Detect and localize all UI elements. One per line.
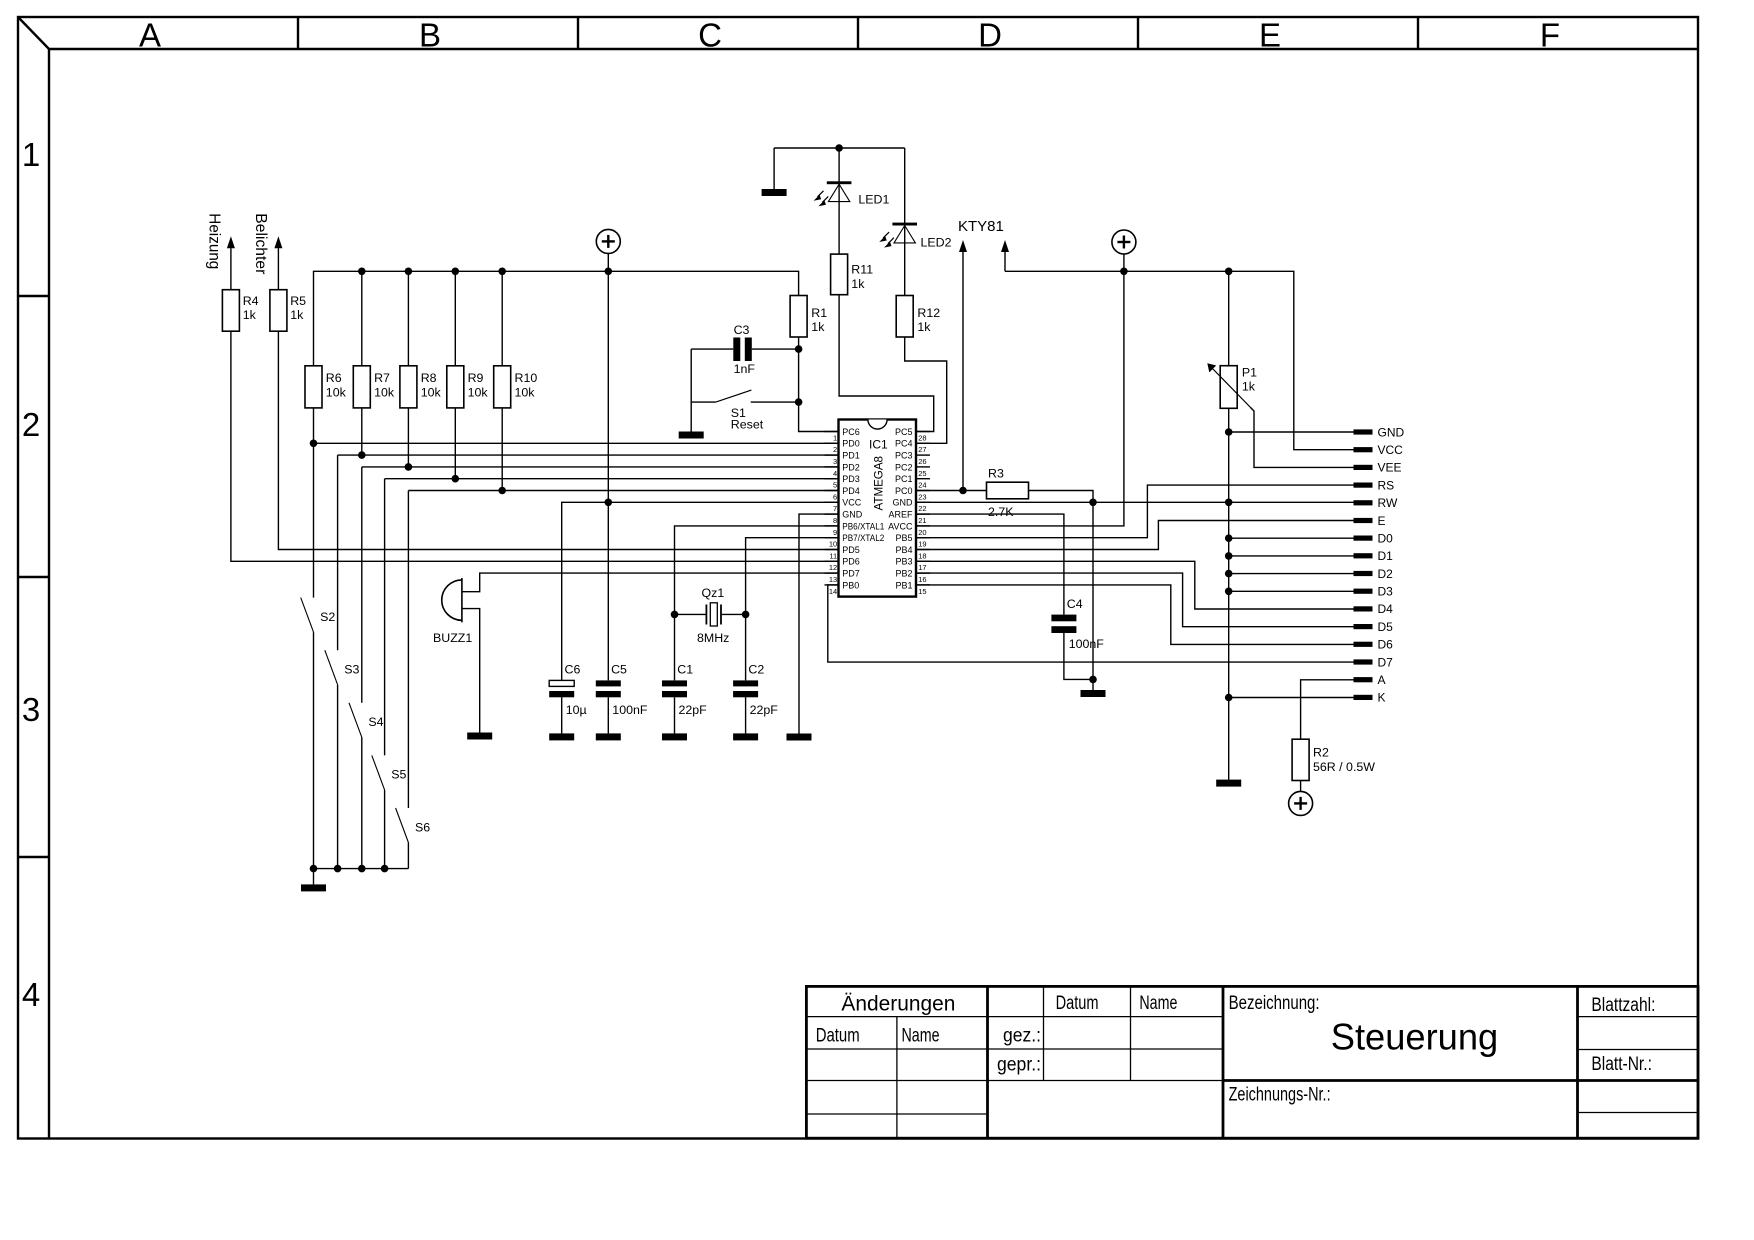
svg-text:22: 22 — [918, 504, 926, 513]
ground symbol below C4 — [1081, 690, 1106, 697]
wire XTAL1 net — [671, 526, 839, 681]
svg-text:8: 8 — [833, 516, 837, 525]
svg-text:R12: R12 — [917, 306, 940, 320]
svg-text:100nF: 100nF — [1069, 637, 1105, 651]
svg-text:gez.:: gez.: — [1003, 1025, 1041, 1046]
svg-text:R3: R3 — [988, 467, 1004, 481]
wire R9 to IC1 and S5 — [385, 408, 839, 756]
wire IC1 pin23 PC0 to R3 — [916, 487, 987, 495]
svg-text:22pF: 22pF — [750, 703, 779, 717]
svg-text:22pF: 22pF — [679, 703, 708, 717]
svg-text:1nF: 1nF — [734, 362, 756, 376]
svg-text:C1: C1 — [677, 663, 693, 677]
svg-text:R9: R9 — [468, 371, 484, 385]
wire S2 to ground bus — [313, 632, 315, 869]
svg-text:R10: R10 — [515, 371, 538, 385]
svg-text:20: 20 — [918, 528, 926, 537]
svg-text:F: F — [1540, 17, 1560, 54]
wire R11 to IC1 pin28 PC5 — [839, 295, 934, 432]
svg-text:B: B — [419, 17, 441, 54]
svg-text:PD3: PD3 — [842, 474, 860, 484]
capacitor C6 10u — [549, 663, 586, 718]
wire IC1 PB3 to LCD D4 — [916, 561, 1354, 609]
svg-text:26: 26 — [918, 457, 926, 466]
svg-text:LED1: LED1 — [858, 193, 889, 207]
svg-text:10k: 10k — [515, 386, 536, 400]
ground symbol at C2 — [733, 733, 758, 740]
svg-text:C4: C4 — [1067, 597, 1083, 611]
IC IC1 ATMEGA8 — [825, 420, 931, 597]
svg-text:E: E — [1378, 514, 1386, 528]
resistor R5 1k — [270, 290, 306, 332]
resistor R3 2.7K — [987, 467, 1029, 520]
svg-text:C5: C5 — [611, 663, 627, 677]
svg-text:Zeichnungs-Nr.:: Zeichnungs-Nr.: — [1229, 1085, 1331, 1106]
wire GND to LCD D3 — [1229, 590, 1354, 592]
svg-text:VCC: VCC — [842, 498, 862, 508]
svg-text:PD0: PD0 — [842, 439, 860, 449]
svg-text:2.7K: 2.7K — [988, 505, 1014, 519]
svg-text:Name: Name — [1139, 993, 1177, 1014]
ground symbol at IC1 GND — [787, 734, 812, 741]
svg-text:R5: R5 — [290, 294, 306, 308]
wire S5 to ground bus — [384, 790, 386, 869]
svg-text:1k: 1k — [811, 320, 825, 334]
svg-text:S2: S2 — [320, 610, 335, 624]
svg-text:E: E — [1259, 17, 1281, 54]
resistor R12 1k — [896, 296, 940, 338]
svg-text:S5: S5 — [391, 768, 406, 782]
svg-text:56R / 0.5W: 56R / 0.5W — [1313, 760, 1375, 774]
wire LED1 anode to R11 — [838, 202, 840, 255]
svg-text:28: 28 — [918, 433, 926, 442]
svg-text:4: 4 — [22, 976, 40, 1013]
svg-text:C2: C2 — [748, 663, 764, 677]
wire S3 to ground bus — [337, 685, 339, 869]
svg-text:Blatt-Nr.:: Blatt-Nr.: — [1591, 1054, 1652, 1075]
resistor R7 10k — [353, 366, 395, 408]
wire VCC rail to P1 — [1228, 271, 1230, 365]
capacitor C4 100nF — [1051, 597, 1104, 651]
svg-text:16: 16 — [918, 575, 926, 584]
svg-text:1k: 1k — [917, 320, 931, 334]
svg-text:2: 2 — [22, 406, 40, 443]
svg-text:27: 27 — [918, 445, 926, 454]
svg-text:10µ: 10µ — [566, 703, 587, 717]
capacitor C5 100nF — [596, 663, 648, 718]
svg-text:15: 15 — [918, 587, 926, 596]
svg-text:S4: S4 — [368, 715, 383, 729]
svg-text:11: 11 — [829, 551, 837, 560]
svg-text:PD6: PD6 — [842, 557, 860, 567]
resistor R9 10k — [447, 366, 489, 408]
svg-text:PC6: PC6 — [842, 427, 860, 437]
svg-text:D3: D3 — [1378, 585, 1394, 599]
svg-text:PC0: PC0 — [895, 486, 913, 496]
svg-text:RW: RW — [1378, 496, 1398, 510]
svg-text:10: 10 — [829, 540, 837, 549]
svg-text:K: K — [1378, 691, 1386, 705]
svg-text:R6: R6 — [326, 371, 342, 385]
svg-text:VEE: VEE — [1378, 461, 1402, 475]
svg-text:PB5: PB5 — [895, 533, 912, 543]
wire P1 lower leg GND bus — [1225, 408, 1233, 779]
svg-text:10k: 10k — [468, 386, 489, 400]
svg-text:D2: D2 — [1378, 567, 1394, 581]
svg-text:D4: D4 — [1378, 602, 1394, 616]
svg-text:Bezeichnung:: Bezeichnung: — [1229, 993, 1320, 1014]
svg-text:R1: R1 — [811, 306, 827, 320]
svg-text:D0: D0 — [1378, 531, 1394, 545]
svg-text:Belichter: Belichter — [252, 213, 269, 274]
wire S6 to ground bus — [407, 843, 409, 869]
svg-text:Blattzahl:: Blattzahl: — [1591, 995, 1655, 1016]
svg-text:1k: 1k — [290, 308, 304, 322]
svg-text:8MHz: 8MHz — [697, 631, 729, 645]
svg-text:S6: S6 — [415, 820, 430, 834]
ground symbol at C5 — [596, 733, 621, 740]
wire AREF to C4 — [916, 514, 1064, 615]
wire GND to LCD K — [1229, 697, 1354, 699]
svg-text:3: 3 — [833, 457, 837, 466]
wire LCD A to R2 — [1301, 680, 1354, 739]
wire R4 to IC1 pin12 PD6 — [231, 331, 839, 561]
ground symbol at switch bus — [301, 884, 326, 891]
wire C4 to GND — [1064, 633, 1093, 679]
svg-text:PC5: PC5 — [895, 427, 913, 437]
svg-text:A: A — [139, 17, 161, 54]
crystal Qz1 8MHz — [697, 586, 729, 645]
svg-text:21: 21 — [918, 516, 926, 525]
switch S1 Reset — [691, 390, 798, 431]
wire C5 to ground — [607, 697, 609, 733]
node KTY81 sensor terminals — [958, 218, 1009, 491]
resistor R1 1k — [790, 296, 827, 338]
wire GND net IC1 pin22 to LCD RW — [916, 499, 1354, 507]
svg-text:VCC: VCC — [1378, 443, 1404, 457]
svg-text:Reset: Reset — [731, 418, 764, 432]
ground symbol at C6 — [549, 733, 574, 740]
svg-text:PB3: PB3 — [895, 557, 912, 567]
svg-text:AREF: AREF — [888, 510, 913, 520]
svg-text:19: 19 — [918, 540, 926, 549]
svg-text:PB2: PB2 — [895, 569, 912, 579]
svg-text:1: 1 — [22, 136, 40, 173]
svg-text:GND: GND — [1378, 425, 1405, 439]
svg-text:PC2: PC2 — [895, 462, 913, 472]
wire LED rail to LED2 — [904, 148, 906, 243]
svg-text:gepr.:: gepr.: — [997, 1055, 1041, 1076]
wire GND to LCD D0 — [1229, 537, 1354, 539]
svg-text:1k: 1k — [1242, 379, 1256, 393]
wire GND to LCD GND pad — [1229, 431, 1354, 433]
svg-text:1k: 1k — [243, 308, 257, 322]
wire GND to LCD D2 — [1229, 573, 1354, 575]
resistor R6 10k — [305, 366, 347, 408]
svg-text:6: 6 — [833, 492, 837, 501]
wire R7 to IC1 and S3 — [338, 408, 839, 650]
switch S4 — [349, 703, 384, 738]
wire IC1 PB1 to LCD D6 — [916, 585, 1354, 645]
resistor R8 10k — [400, 366, 442, 408]
svg-text:LED2: LED2 — [921, 235, 952, 249]
svg-text:Heizung: Heizung — [206, 213, 223, 269]
svg-text:D5: D5 — [1378, 620, 1394, 634]
svg-text:AVCC: AVCC — [888, 521, 913, 531]
svg-text:PD1: PD1 — [842, 451, 860, 461]
wire R6 to IC1 and S2 — [310, 408, 839, 598]
ground symbol at C1 — [662, 733, 687, 740]
svg-text:D: D — [978, 17, 1002, 54]
ground symbol at S1 — [679, 432, 704, 439]
svg-text:BUZZ1: BUZZ1 — [433, 631, 472, 645]
svg-text:PC3: PC3 — [895, 451, 913, 461]
svg-text:PC1: PC1 — [895, 474, 913, 484]
svg-text:R7: R7 — [374, 371, 390, 385]
svg-text:D1: D1 — [1378, 549, 1394, 563]
svg-text:GND: GND — [842, 510, 863, 520]
svg-text:PB7/XTAL2: PB7/XTAL2 — [842, 533, 884, 543]
wire XTAL2 net — [721, 538, 839, 681]
svg-text:Steuerung: Steuerung — [1331, 1016, 1499, 1058]
wire switch ground bus — [310, 865, 409, 885]
svg-text:R4: R4 — [243, 294, 259, 308]
svg-text:PB6/XTAL1: PB6/XTAL1 — [842, 521, 884, 531]
svg-text:4: 4 — [833, 469, 837, 478]
ground symbol at buzzer — [467, 733, 492, 740]
svg-text:100nF: 100nF — [612, 703, 648, 717]
LED LED2 — [879, 223, 951, 250]
svg-text:IC1: IC1 — [869, 438, 888, 452]
svg-text:R11: R11 — [851, 263, 873, 277]
resistor R4 1k — [222, 290, 258, 332]
switch S5 — [372, 755, 407, 790]
svg-text:17: 17 — [918, 563, 926, 572]
svg-text:R8: R8 — [421, 371, 437, 385]
svg-text:PB4: PB4 — [895, 545, 912, 555]
wire C2 to ground — [745, 697, 747, 733]
svg-text:D7: D7 — [1378, 655, 1394, 669]
wire buzzer to ground — [462, 609, 480, 733]
ground symbol below P1 — [1216, 780, 1241, 787]
capacitor C2 22pF — [733, 663, 778, 718]
svg-text:C3: C3 — [734, 323, 750, 337]
wire R5 to IC1 pin11 PD5 — [278, 331, 838, 549]
resistor R11 1k — [831, 254, 874, 295]
svg-text:GND: GND — [893, 498, 914, 508]
wire R2 to supply — [1300, 781, 1302, 792]
svg-text:Datum: Datum — [1056, 993, 1099, 1014]
svg-text:7: 7 — [833, 504, 837, 513]
svg-text:RS: RS — [1378, 478, 1395, 492]
svg-text:23: 23 — [918, 492, 926, 501]
svg-text:1k: 1k — [851, 277, 865, 291]
node Heizung output arrow — [206, 213, 235, 289]
wire reset node R1/C3/S1 to IC1 pin1 — [795, 337, 839, 432]
svg-text:2: 2 — [833, 445, 837, 454]
svg-text:1: 1 — [833, 433, 837, 442]
wire IC1 PB2 to LCD D5 — [916, 573, 1354, 627]
svg-text:S3: S3 — [344, 663, 359, 677]
wire R12 to IC1 pin27 PC4 — [905, 337, 947, 443]
wire S4 to ground bus — [361, 737, 363, 868]
svg-text:3: 3 — [22, 691, 40, 728]
svg-text:24: 24 — [918, 481, 926, 490]
wire GND to LCD D1 — [1229, 555, 1354, 557]
svg-text:10k: 10k — [421, 386, 442, 400]
svg-text:PD5: PD5 — [842, 545, 860, 555]
svg-text:PB0: PB0 — [842, 580, 859, 590]
wire R8 to IC1 and S4 — [362, 408, 839, 703]
svg-text:5: 5 — [833, 481, 837, 490]
svg-text:Datum: Datum — [816, 1025, 860, 1046]
svg-text:A: A — [1378, 673, 1386, 687]
svg-text:PD2: PD2 — [842, 462, 860, 472]
capacitor C1 22pF — [662, 663, 707, 718]
svg-text:10k: 10k — [326, 386, 347, 400]
power +5V supply symbol left — [596, 229, 620, 271]
wire VCC to IC1 pin7 and decoupling caps — [562, 271, 839, 680]
wire P1 wiper to VEE — [1251, 408, 1354, 468]
switch S6 — [396, 808, 431, 843]
resistor R2 56R/0.5W — [1292, 739, 1375, 780]
wire C1 to ground — [674, 697, 676, 733]
ground symbol at LED rail — [762, 148, 787, 196]
svg-text:D6: D6 — [1378, 638, 1394, 652]
node Belichter output arrow — [252, 213, 282, 289]
wire AVCC to IC1 pin20 — [916, 271, 1124, 526]
wire GND vertical at C4 — [1089, 502, 1097, 690]
buzzer BUZZ1 — [433, 578, 472, 645]
svg-text:13: 13 — [829, 575, 837, 584]
svg-text:PD7: PD7 — [842, 569, 860, 579]
svg-text:10k: 10k — [374, 386, 395, 400]
switch S3 — [325, 650, 360, 685]
wire VCC right rail to LCD VCC — [1005, 268, 1354, 450]
svg-text:C6: C6 — [565, 663, 581, 677]
svg-text:14: 14 — [829, 587, 837, 596]
wire C3/S1 left leg — [690, 349, 692, 431]
svg-text:P1: P1 — [1242, 365, 1257, 379]
svg-text:25: 25 — [918, 469, 926, 478]
wire IC1 pin8 GND — [799, 514, 839, 733]
svg-text:PB1: PB1 — [895, 580, 912, 590]
svg-text:PC4: PC4 — [895, 439, 913, 449]
svg-text:Qz1: Qz1 — [702, 586, 725, 600]
svg-text:Änderungen: Änderungen — [841, 993, 955, 1016]
power +5V supply symbol right — [1112, 230, 1136, 271]
power +5V supply symbol at R2 — [1289, 791, 1313, 815]
LED LED1 — [814, 148, 890, 207]
svg-text:R2: R2 — [1313, 746, 1329, 760]
capacitor C3 1nF — [691, 323, 798, 376]
svg-text:ATMEGA8: ATMEGA8 — [872, 456, 886, 511]
svg-text:PD4: PD4 — [842, 486, 860, 496]
wire LED2 anode to R12 — [904, 243, 906, 296]
svg-text:C: C — [698, 17, 722, 54]
wire IC1 PB0 to LCD D7 — [828, 585, 1354, 662]
svg-text:9: 9 — [833, 528, 837, 537]
svg-text:Name: Name — [902, 1025, 940, 1046]
svg-text:KTY81: KTY81 — [958, 218, 1004, 235]
wire IC1 pin13 PD7 to buzzer — [462, 573, 839, 592]
potentiometer P1 1k — [1207, 363, 1257, 411]
wire R10 to IC1 and S6 — [408, 408, 838, 808]
wire IC1 PB4 to LCD E — [916, 521, 1354, 550]
wire R3 to GND — [1029, 491, 1094, 503]
svg-text:18: 18 — [918, 551, 926, 560]
wire C6 to ground — [561, 697, 563, 733]
wire IC1 PB5 to LCD RS — [916, 485, 1354, 538]
LCD connector pads GND..K — [1354, 425, 1405, 704]
switch S2 — [301, 598, 336, 633]
resistor R10 10k — [494, 366, 538, 408]
wire LED cathode rail — [774, 144, 905, 152]
wire VCC top bus — [314, 268, 799, 366]
svg-text:12: 12 — [829, 563, 837, 572]
